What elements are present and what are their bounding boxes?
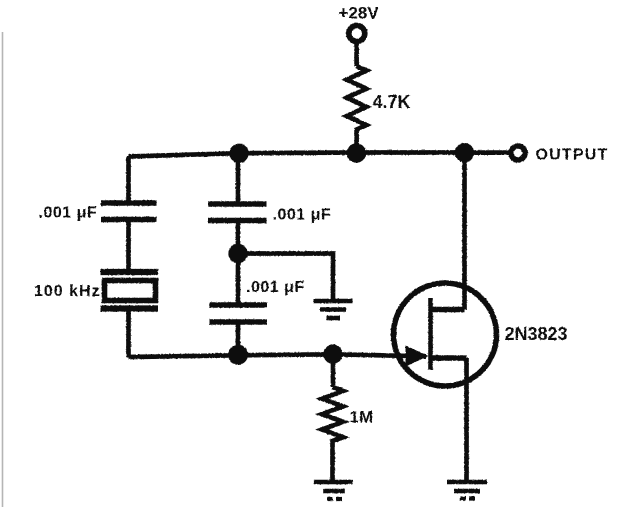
svg-text:+28V: +28V — [339, 4, 380, 23]
svg-text:.001 μF: .001 μF — [246, 279, 305, 296]
svg-text:4.7K: 4.7K — [373, 92, 411, 112]
svg-text:2N3823: 2N3823 — [505, 324, 568, 344]
svg-text:100 kHz: 100 kHz — [34, 283, 101, 300]
svg-text:.001 μF: .001 μF — [39, 205, 98, 222]
svg-text:.001 μF: .001 μF — [273, 207, 332, 224]
svg-text:1M: 1M — [350, 408, 374, 427]
svg-text:OUTPUT: OUTPUT — [536, 147, 609, 164]
